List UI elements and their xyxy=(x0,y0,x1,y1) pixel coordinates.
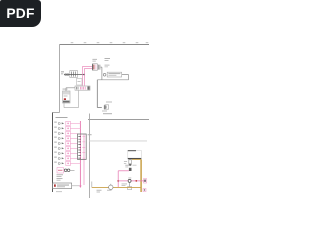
component: fuse row 6 xyxy=(54,146,77,150)
wire: long horizontal line A xyxy=(88,119,149,121)
wire: pink highlighted elbow (vertical pair) xyxy=(83,66,85,86)
wire: gray vertical drop xyxy=(96,80,98,108)
component: fuse row 5 xyxy=(54,141,77,145)
component: boxed label xyxy=(107,72,121,77)
wire: loop under module xyxy=(64,91,79,108)
component: small white box above pink bar xyxy=(77,79,83,86)
label: text under pink low xyxy=(122,183,128,186)
component: fuse row 7 xyxy=(54,151,77,155)
component: connector box K1 xyxy=(70,71,78,78)
node: junction dot xyxy=(83,74,85,76)
wire: orange bottom horizontal xyxy=(92,186,141,188)
component: relay box with red element xyxy=(92,64,97,70)
label: text above relay xyxy=(92,58,97,61)
wire: pink low horizontal xyxy=(118,180,145,182)
label: small text "2" left of component row xyxy=(61,70,64,73)
component: gray box above orange corner xyxy=(128,150,142,158)
component: connector at fuse bottom xyxy=(129,168,132,171)
component: double circle connector xyxy=(64,169,67,172)
label: text above line A xyxy=(103,113,112,114)
component: pink switch box lower xyxy=(57,168,64,173)
node: pink bus end arrow xyxy=(79,186,81,189)
component: pink end box bottom right xyxy=(143,189,146,192)
bus: left dark vertical bus xyxy=(52,113,54,193)
component: fuse row 9 xyxy=(54,161,80,165)
component: fuse hanging from band xyxy=(129,160,132,165)
wire: link down to vertical xyxy=(101,67,102,80)
component: bottom boxed label xyxy=(53,183,72,189)
label: cluster title text xyxy=(56,116,68,119)
label: text right of connector xyxy=(88,133,92,136)
component: module box xyxy=(63,91,71,103)
wire: stub at orange left end xyxy=(91,182,93,188)
wire: pink bus vertical 1 xyxy=(79,121,81,186)
component: fuse row 8 xyxy=(54,156,77,160)
node: circle terminal xyxy=(103,74,106,77)
label: text left of fuse xyxy=(124,160,127,163)
component: fuse row 1 xyxy=(54,121,80,125)
wire: pink mid horizontal xyxy=(118,170,129,172)
label: text above pink mid end xyxy=(125,164,130,167)
label: text above module xyxy=(63,88,68,91)
component: fuse row 2 xyxy=(54,126,80,130)
wire: orange feed top xyxy=(132,158,141,160)
wire: pink highlighted elbow (horizontal pair) xyxy=(83,66,93,68)
wire: orange vertical xyxy=(140,159,142,192)
component: fuse row 3 xyxy=(54,131,77,135)
component: multi-pin connector box xyxy=(78,134,87,159)
label: text block lower left xyxy=(57,173,64,176)
wire: from bar left to module xyxy=(66,88,75,91)
wire: loop from boxed label back to vertical xyxy=(97,75,128,80)
frame: top border line xyxy=(60,44,150,46)
component: pink end box right xyxy=(144,179,147,183)
node: red junction on pink xyxy=(118,180,119,181)
frame: left border vertical xyxy=(59,45,61,113)
frame: jog segment xyxy=(53,112,60,114)
PDF badge xyxy=(0,0,41,27)
wire: link to pink bus xyxy=(72,185,81,187)
component: circle on pink low xyxy=(128,179,131,182)
component: contact bars xyxy=(98,65,100,70)
wire: pink bus vertical 2 xyxy=(83,135,85,186)
component: fuse symbol at drop elbow xyxy=(97,107,102,109)
frame: tick marks above top border xyxy=(71,42,149,44)
wire: black wire to pink junction xyxy=(64,74,84,76)
component: dark band (box bottom) xyxy=(128,158,142,160)
label: text block top right xyxy=(105,57,111,60)
label: text below orange line xyxy=(97,189,102,192)
wire: long vertical line at x=89 xyxy=(89,114,91,199)
component: fuse row 4 xyxy=(54,136,77,140)
component: horizontal connector bar xyxy=(75,86,90,90)
component: motor circle on orange line xyxy=(109,185,113,189)
component: small box under pink low xyxy=(129,182,131,186)
wire: pink vertical drop xyxy=(117,171,119,188)
component: terminal circles xyxy=(65,74,67,76)
wire: long light horizontal line B xyxy=(90,140,148,142)
node: red dot near orange xyxy=(135,180,137,182)
